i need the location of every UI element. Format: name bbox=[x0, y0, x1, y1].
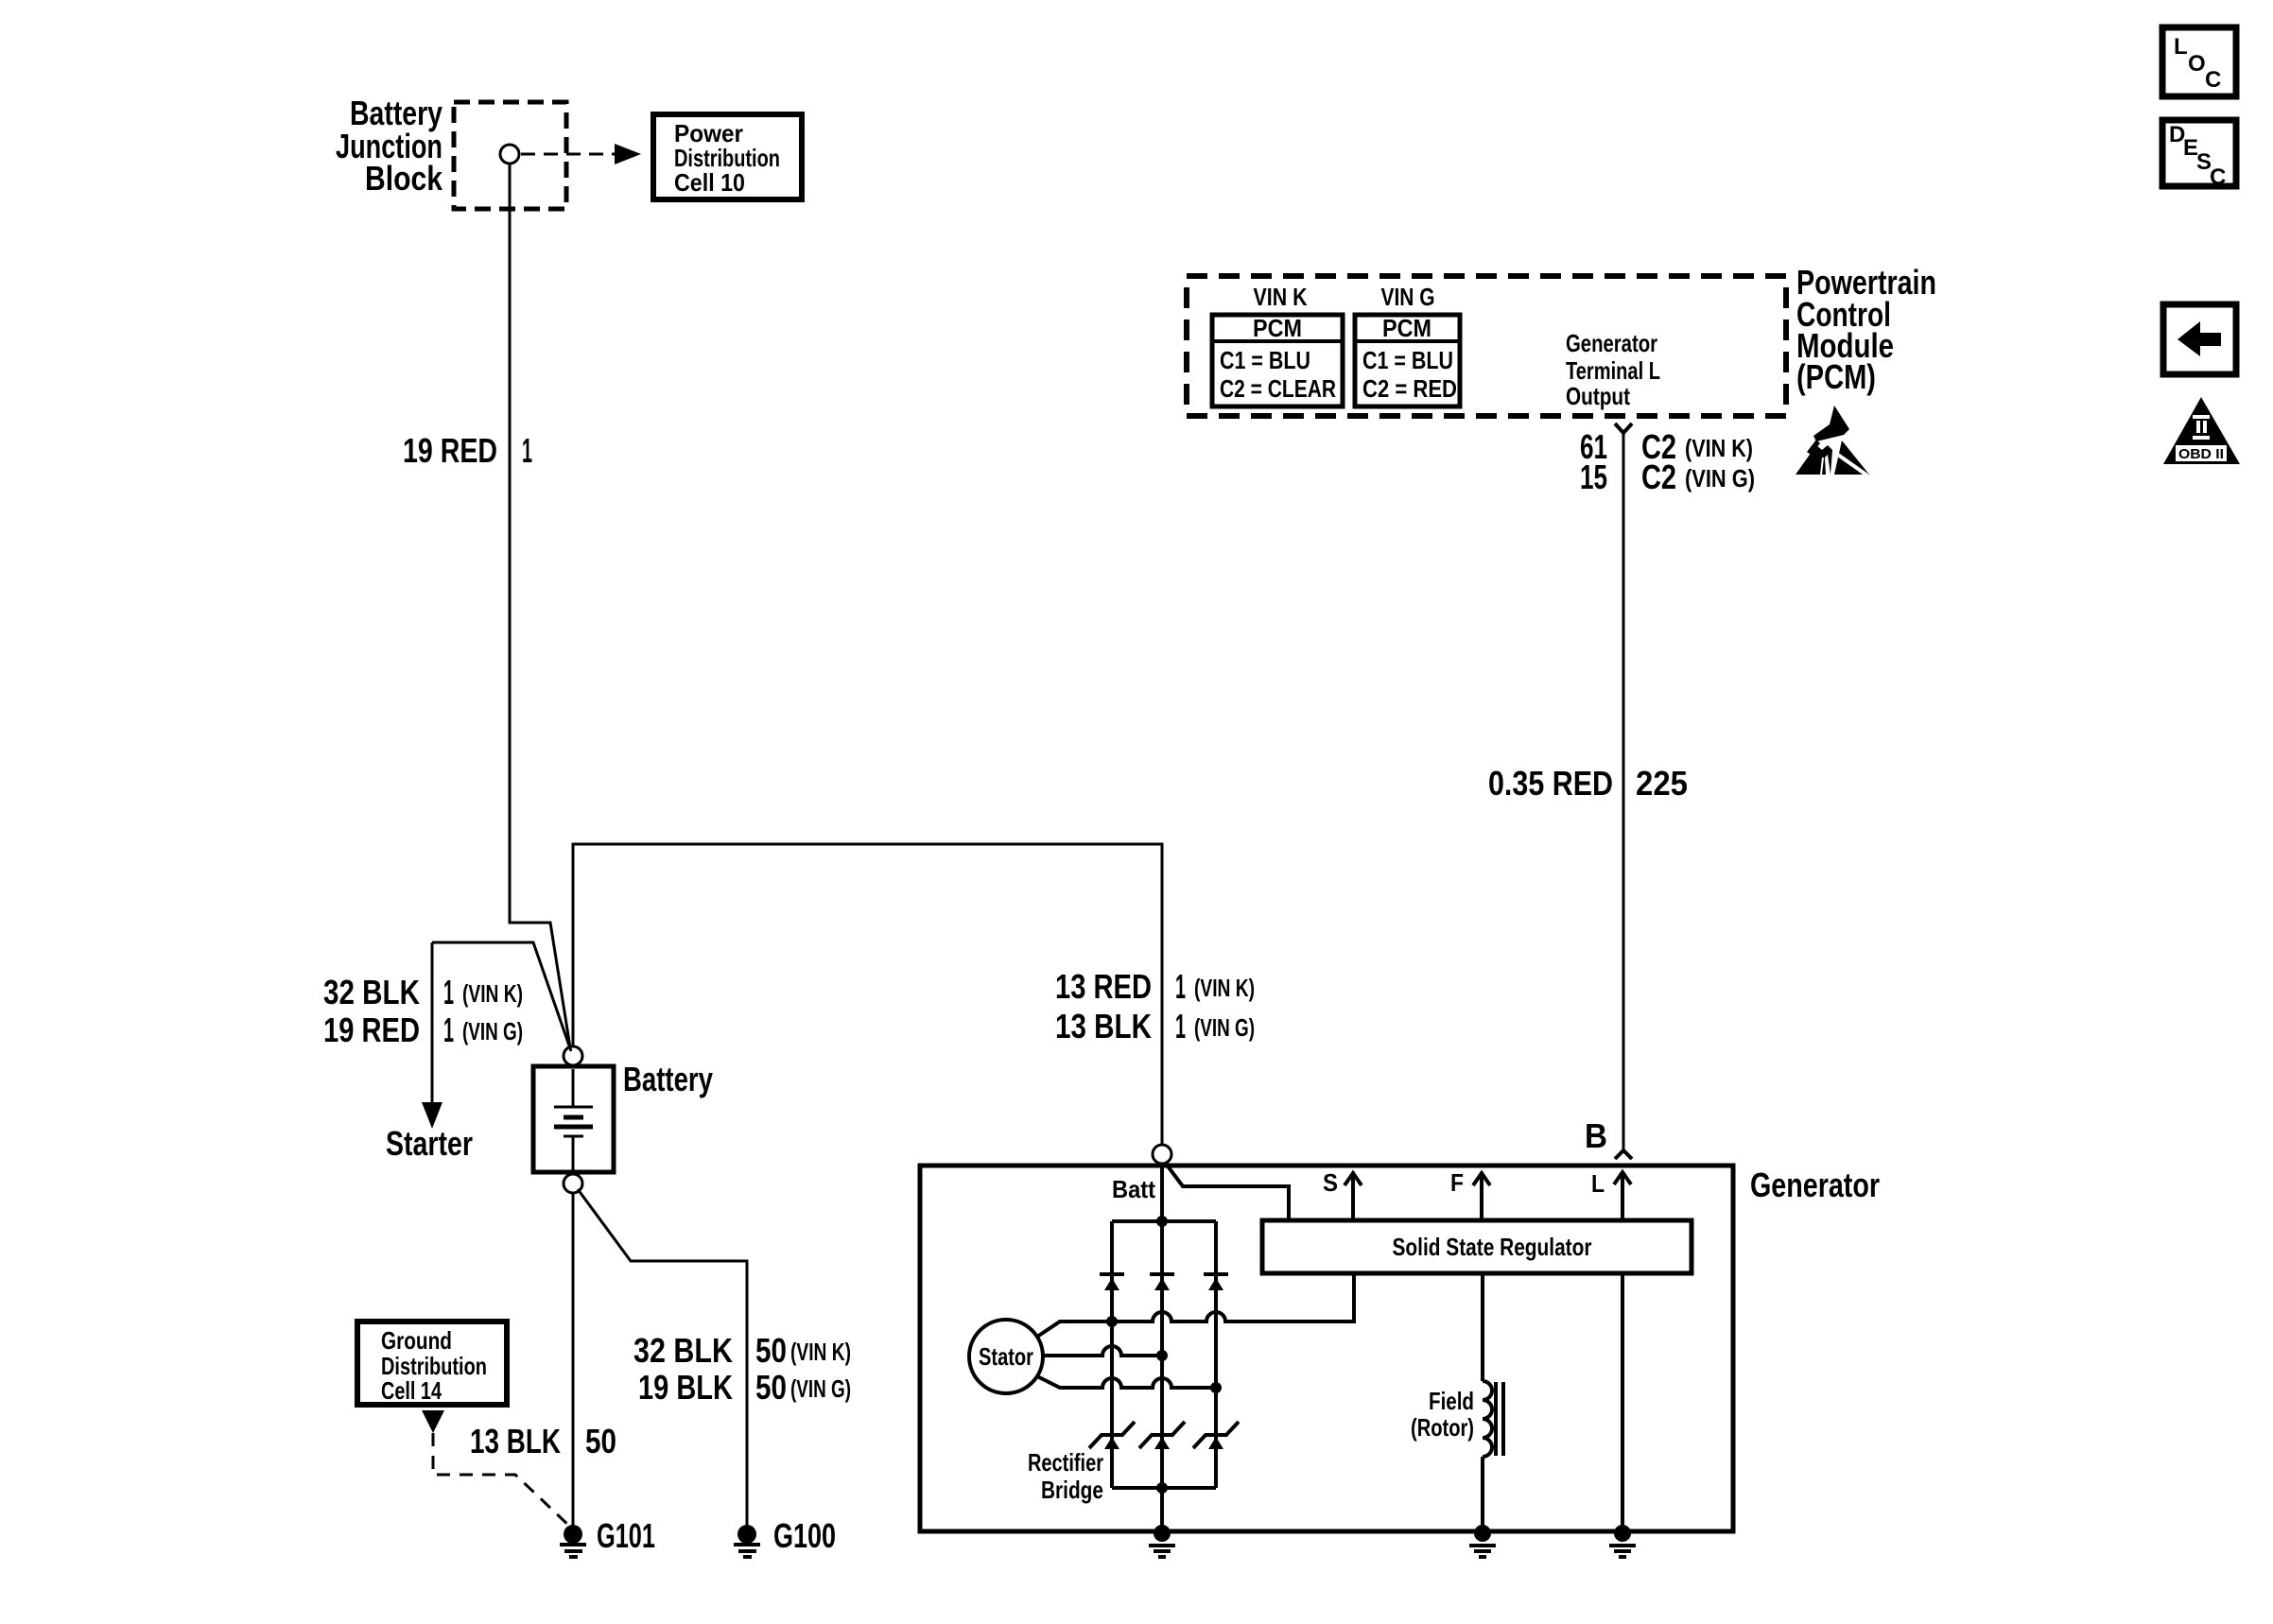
svg-text:VIN G: VIN G bbox=[1381, 283, 1435, 311]
ground (field column) bbox=[1469, 1525, 1496, 1557]
svg-text:1: 1 bbox=[443, 1011, 454, 1049]
ground (generator batt column) bbox=[1149, 1525, 1175, 1557]
label 19 RED 1 bbox=[403, 431, 532, 470]
label 13 BLK 50 bbox=[470, 1422, 616, 1460]
battery B1 bbox=[533, 1066, 614, 1172]
svg-text:1: 1 bbox=[443, 973, 454, 1011]
ground G101 bbox=[560, 1525, 586, 1557]
terminal S arrow bbox=[1345, 1173, 1362, 1220]
svg-text:50: 50 bbox=[585, 1422, 616, 1460]
dashed reference line to G101 bbox=[433, 1433, 571, 1528]
wire: junction block to battery positive bbox=[510, 164, 570, 1047]
svg-text:32 BLK: 32 BLK bbox=[633, 1331, 733, 1370]
ground G100 bbox=[734, 1525, 760, 1557]
svg-text:(VIN G): (VIN G) bbox=[790, 1374, 851, 1403]
svg-text:Battery: Battery bbox=[623, 1060, 713, 1098]
wire: col3 bbox=[1214, 1221, 1218, 1488]
generator L connector chevron bbox=[1615, 1150, 1632, 1159]
wire: stator phase 2 bbox=[1043, 1346, 1162, 1356]
svg-text:Output: Output bbox=[1566, 382, 1630, 410]
wire: batt to regulator bbox=[1166, 1164, 1289, 1220]
svg-text:(PCM): (PCM) bbox=[1796, 357, 1876, 396]
svg-text:(VIN K): (VIN K) bbox=[1194, 974, 1255, 1002]
svg-text:50: 50 bbox=[755, 1331, 787, 1370]
terminal F arrow bbox=[1473, 1173, 1490, 1220]
svg-text:(VIN G): (VIN G) bbox=[1194, 1013, 1255, 1042]
svg-text:19 BLK: 19 BLK bbox=[638, 1368, 733, 1407]
svg-text:B: B bbox=[1585, 1116, 1607, 1155]
svg-text:Bridge: Bridge bbox=[1041, 1476, 1103, 1504]
svg-text:C1 = BLU: C1 = BLU bbox=[1220, 346, 1310, 374]
svg-text:32 BLK: 32 BLK bbox=[323, 973, 420, 1011]
svg-text:G101: G101 bbox=[597, 1516, 655, 1555]
svg-text:Ground: Ground bbox=[381, 1326, 452, 1355]
svg-text:F: F bbox=[1450, 1168, 1464, 1197]
labels 32 BLK 50 (VIN K) / 19 BLK 50 (VIN G) bbox=[633, 1331, 851, 1407]
PCM output connector chevron bbox=[1615, 423, 1632, 433]
node: rectifier bottom bus bbox=[1112, 1486, 1216, 1490]
pin labels 61 C2 (VIN K) / 15 C2 (VIN G) bbox=[1580, 427, 1755, 496]
svg-text:13 RED: 13 RED bbox=[1055, 967, 1152, 1006]
svg-text:VIN K: VIN K bbox=[1254, 283, 1308, 311]
svg-text:PCM: PCM bbox=[1253, 314, 1302, 342]
label Field (Rotor) bbox=[1411, 1387, 1474, 1442]
svg-text:L: L bbox=[2174, 34, 2188, 60]
svg-text:S: S bbox=[1323, 1168, 1338, 1197]
wire: batt column (col2) bbox=[1160, 1164, 1164, 1529]
icon LOC bbox=[2162, 27, 2236, 96]
svg-text:1: 1 bbox=[1175, 967, 1186, 1006]
wire: battery negative to G101 bbox=[572, 1193, 575, 1526]
wire: battery positive to generator batt (long run) bbox=[573, 844, 1162, 1145]
svg-text:0.35 RED: 0.35 RED bbox=[1488, 764, 1613, 803]
svg-text:Field: Field bbox=[1429, 1387, 1474, 1415]
battery negative terminal bbox=[564, 1174, 582, 1193]
ground (L column) bbox=[1609, 1525, 1636, 1557]
svg-text:C2: C2 bbox=[1641, 458, 1676, 496]
svg-text:(VIN K): (VIN K) bbox=[790, 1338, 851, 1366]
diode D5 (lower col2, avalanche) bbox=[1139, 1422, 1185, 1449]
junction block terminal bbox=[500, 145, 519, 164]
svg-text:(VIN K): (VIN K) bbox=[462, 979, 523, 1008]
generator Batt terminal bbox=[1153, 1145, 1171, 1164]
diode D1 (upper col1) bbox=[1100, 1274, 1124, 1290]
wire: L column inside generator bbox=[1621, 1273, 1624, 1529]
diode D6 (lower col3, avalanche) bbox=[1193, 1422, 1239, 1449]
svg-text:(VIN G): (VIN G) bbox=[1685, 464, 1755, 492]
svg-text:C2 = CLEAR: C2 = CLEAR bbox=[1220, 374, 1336, 403]
svg-text:1: 1 bbox=[1175, 1007, 1186, 1045]
svg-text:13 BLK: 13 BLK bbox=[470, 1422, 561, 1460]
diode D3 (upper col3) bbox=[1204, 1274, 1228, 1290]
svg-text:225: 225 bbox=[1636, 764, 1688, 803]
wire: stator phase 1 bbox=[1037, 1273, 1354, 1337]
node: rectifier top bus bbox=[1112, 1219, 1216, 1223]
svg-text:Stator: Stator bbox=[979, 1342, 1033, 1371]
icon OBD II bbox=[2163, 397, 2240, 464]
icon back arrow bbox=[2163, 304, 2236, 374]
svg-text:Generator: Generator bbox=[1566, 329, 1657, 357]
svg-text:1: 1 bbox=[522, 431, 532, 470]
svg-text:C1 = BLU: C1 = BLU bbox=[1362, 346, 1453, 374]
field (rotor) coil L1 bbox=[1483, 1273, 1503, 1529]
PCM connector table (VIN K) bbox=[1212, 314, 1343, 406]
svg-text:15: 15 bbox=[1580, 458, 1607, 496]
svg-text:Cell 10: Cell 10 bbox=[674, 168, 745, 197]
svg-text:Block: Block bbox=[365, 159, 443, 198]
svg-text:19 RED: 19 RED bbox=[403, 431, 497, 470]
power distribution cell 10 box bbox=[653, 114, 802, 199]
arrowhead to power distribution bbox=[615, 144, 641, 164]
arrowhead from ground distribution bbox=[422, 1410, 444, 1433]
svg-text:C: C bbox=[2205, 67, 2221, 93]
svg-text:50: 50 bbox=[755, 1368, 787, 1407]
diode D4 (lower col1, avalanche) bbox=[1089, 1422, 1135, 1449]
wire: battery negative to G100 bbox=[578, 1189, 747, 1526]
generator box bbox=[920, 1166, 1733, 1531]
labels 13 RED 1 (VIN K) / 13 BLK 1 (VIN G) bbox=[1055, 967, 1255, 1045]
label 0.35 RED 225 bbox=[1488, 764, 1688, 803]
svg-text:Solid State Regulator: Solid State Regulator bbox=[1393, 1233, 1592, 1261]
svg-text:G100: G100 bbox=[773, 1516, 836, 1555]
svg-text:L: L bbox=[1591, 1169, 1605, 1198]
svg-text:Batt: Batt bbox=[1112, 1175, 1155, 1203]
svg-text:Rectifier: Rectifier bbox=[1028, 1448, 1103, 1477]
labels 32 BLK 1 (VIN K) / 19 RED 1 (VIN G) bbox=[323, 973, 523, 1049]
svg-text:C2 = RED: C2 = RED bbox=[1362, 374, 1457, 403]
diode D2 (upper col2) bbox=[1150, 1274, 1174, 1290]
svg-text:PCM: PCM bbox=[1382, 314, 1431, 342]
wire: starter feed bbox=[432, 942, 571, 1051]
label Rectifier Bridge bbox=[1028, 1448, 1103, 1504]
svg-text:Cell 14: Cell 14 bbox=[381, 1376, 442, 1405]
dashed reference line to power distribution bbox=[521, 153, 615, 156]
PCM connector table (VIN G) bbox=[1355, 314, 1460, 406]
battery positive terminal bbox=[564, 1046, 582, 1065]
wire: stator phase 3 bbox=[1037, 1376, 1216, 1388]
wire: PCM to generator L terminal bbox=[1622, 433, 1625, 1150]
ground distribution cell 14 box bbox=[357, 1322, 507, 1405]
svg-text:19 RED: 19 RED bbox=[323, 1011, 420, 1049]
svg-text:(VIN K): (VIN K) bbox=[1685, 434, 1753, 462]
PCM (dashed box) bbox=[1187, 276, 1786, 416]
svg-text:C: C bbox=[2210, 164, 2226, 190]
svg-text:(Rotor): (Rotor) bbox=[1411, 1413, 1474, 1442]
label Powertrain Control Module (PCM) bbox=[1796, 263, 1936, 396]
solid state regulator U1 bbox=[1262, 1220, 1692, 1273]
battery junction block label bbox=[336, 94, 443, 198]
svg-text:Generator: Generator bbox=[1750, 1166, 1880, 1204]
svg-text:OBD II: OBD II bbox=[2178, 446, 2224, 462]
arrowhead to starter bbox=[422, 1102, 442, 1129]
svg-text:O: O bbox=[2188, 51, 2206, 77]
svg-text:13 BLK: 13 BLK bbox=[1055, 1007, 1152, 1045]
icon ESD warning bbox=[1796, 406, 1869, 475]
svg-text:Terminal L: Terminal L bbox=[1566, 356, 1660, 385]
stator bbox=[969, 1320, 1043, 1393]
svg-text:(VIN G): (VIN G) bbox=[462, 1017, 523, 1045]
terminal L arrow bbox=[1614, 1172, 1631, 1220]
label Generator Terminal L Output bbox=[1566, 329, 1660, 410]
battery junction block (dashed box) bbox=[454, 102, 566, 209]
wire: col1 bbox=[1110, 1221, 1114, 1488]
svg-text:Starter: Starter bbox=[386, 1124, 473, 1163]
icon DESC bbox=[2162, 120, 2236, 190]
